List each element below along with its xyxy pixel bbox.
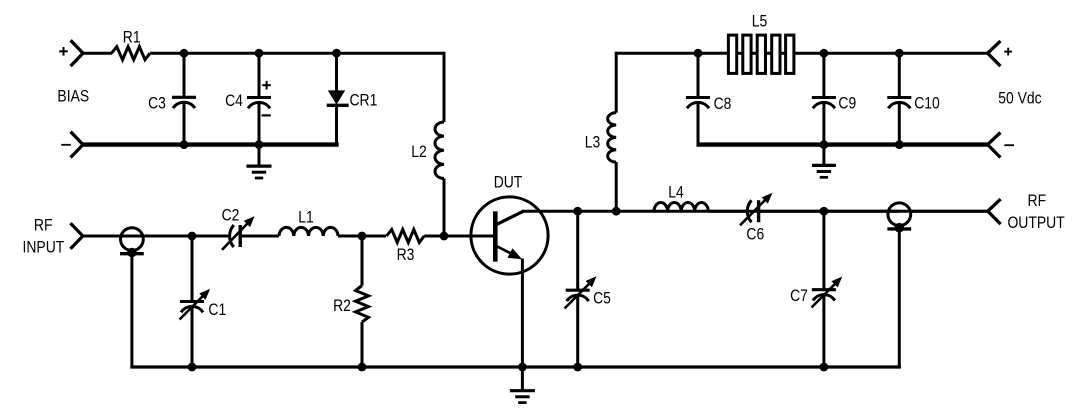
wire collector line xyxy=(522,210,988,213)
transistor DUT emitter lead xyxy=(496,246,522,259)
label C1 xyxy=(208,300,226,319)
junction bias bottom C4 xyxy=(255,140,264,149)
junction input C1 xyxy=(188,232,197,241)
junction out C5 xyxy=(573,207,582,216)
label BIAS xyxy=(57,87,89,106)
junction bottom C7 xyxy=(820,363,829,372)
junction rail C10 xyxy=(895,140,904,149)
wire C1 bottom xyxy=(191,306,194,367)
junction top C9 xyxy=(820,49,829,58)
inductor L3 xyxy=(608,113,617,163)
wire C3 bottom xyxy=(183,102,186,145)
label DUT xyxy=(494,173,523,192)
ground at C4 xyxy=(247,145,272,178)
svg-text:C4: C4 xyxy=(225,91,243,110)
transistor DUT body circle xyxy=(471,197,548,274)
wire C10 top xyxy=(898,53,901,97)
label 50 Vdc xyxy=(998,89,1042,108)
inductor L2 xyxy=(435,122,444,178)
label RF (output) xyxy=(1028,191,1047,210)
svg-text:C6: C6 xyxy=(746,224,764,243)
wire C9 bottom xyxy=(822,102,825,144)
label C3 xyxy=(148,94,166,113)
wire C5 top xyxy=(576,211,579,290)
wire R2 bottom xyxy=(361,322,364,367)
svg-text:CR1: CR1 xyxy=(349,90,377,109)
terminal BIAS - input xyxy=(61,132,83,158)
label R2 xyxy=(333,296,351,315)
capacitor C5 (variable) xyxy=(565,276,597,308)
label C8 xyxy=(714,94,732,113)
label C6 xyxy=(746,224,764,243)
svg-text:R1: R1 xyxy=(123,28,141,47)
svg-text:C7: C7 xyxy=(790,286,808,305)
wire C7 top xyxy=(822,211,825,289)
wire C7 bottom xyxy=(822,294,825,367)
label RF (input) xyxy=(34,216,53,235)
svg-text:L4: L4 xyxy=(668,183,684,202)
resistor R1 xyxy=(112,47,151,60)
label L3 xyxy=(585,133,601,152)
wire input connector stub xyxy=(130,254,133,369)
label CR1 xyxy=(349,90,377,109)
svg-text:DUT: DUT xyxy=(494,173,523,192)
wire CR1 bottom xyxy=(335,105,338,144)
wire C4 top xyxy=(258,53,261,97)
svg-text:OUTPUT: OUTPUT xyxy=(1007,213,1064,232)
capacitor C6 (series variable) xyxy=(740,193,773,226)
label C4 xyxy=(225,91,243,110)
svg-text:L3: L3 xyxy=(585,133,601,152)
label C2 xyxy=(222,206,240,225)
wire output connector stub xyxy=(898,229,901,369)
inductor L1 xyxy=(279,227,338,236)
ground at emitter xyxy=(510,367,535,403)
inductor L4 xyxy=(654,203,708,212)
svg-text:C10: C10 xyxy=(914,94,940,113)
junction top C10 xyxy=(895,49,904,58)
junction top C8 xyxy=(694,49,703,58)
label OUTPUT xyxy=(1007,213,1064,232)
wire bias + to R1 xyxy=(83,52,112,55)
label L2 xyxy=(411,142,427,161)
capacitor C4 (polarized) xyxy=(247,81,271,116)
wire RF input line xyxy=(83,235,230,238)
junction bottom C1 xyxy=(188,363,197,372)
capacitor C3 xyxy=(172,97,196,108)
wire CR1 top xyxy=(335,53,338,91)
wire bias bottom rail xyxy=(83,142,339,146)
transistor DUT collector lead xyxy=(496,211,524,225)
transistor DUT base bar xyxy=(493,211,498,261)
wire L2 bottom xyxy=(443,179,446,237)
terminal RF INPUT xyxy=(70,223,82,249)
wire to RF output terminal xyxy=(910,210,988,213)
junction out C7 xyxy=(820,207,829,216)
wire L1 to R3 xyxy=(338,235,386,238)
wire L3 bottom xyxy=(615,162,618,211)
wire 50V bottom rail xyxy=(697,142,988,146)
wire C3 top xyxy=(183,53,186,97)
label R3 xyxy=(397,245,415,264)
resistor R2 xyxy=(356,286,369,323)
connector J2 (output) xyxy=(887,203,911,233)
svg-text:BIAS: BIAS xyxy=(57,87,89,106)
svg-text:R2: R2 xyxy=(333,296,351,315)
svg-text:L5: L5 xyxy=(752,12,768,31)
capacitor C2 (series variable) xyxy=(222,216,255,250)
capacitor C8 xyxy=(686,98,710,109)
svg-text:50 Vdc: 50 Vdc xyxy=(998,89,1042,108)
ground at C9 xyxy=(812,145,836,178)
wire C4 bottom xyxy=(258,102,261,144)
diode CR1 xyxy=(327,90,349,105)
junction top C4 xyxy=(255,49,264,58)
terminal 50V - xyxy=(988,133,1014,158)
label L1 xyxy=(298,207,314,226)
wire L3 top xyxy=(615,52,618,113)
label INPUT xyxy=(23,238,65,257)
connector J1 (input) xyxy=(120,228,144,258)
svg-text:RF: RF xyxy=(1028,191,1047,210)
wire C6 to C7 junction xyxy=(760,210,899,213)
label L4 xyxy=(668,183,684,202)
junction rail C9 xyxy=(820,140,829,149)
svg-text:L2: L2 xyxy=(411,142,427,161)
terminal 50V + xyxy=(988,41,1013,66)
wire R3 to base xyxy=(424,235,495,238)
wire top right rail xyxy=(616,52,987,55)
capacitor C10 xyxy=(887,98,911,109)
junction bottom R2 xyxy=(358,363,367,372)
label C10 xyxy=(914,94,940,113)
wire L4 to C6 xyxy=(708,210,747,213)
label R1 xyxy=(123,28,141,47)
wire C10 bottom xyxy=(898,102,901,144)
terminal BIAS + input xyxy=(59,40,83,66)
wire C8 top xyxy=(697,53,700,97)
svg-text:C3: C3 xyxy=(148,94,166,113)
resistor R3 xyxy=(387,230,425,243)
label L5 xyxy=(752,12,768,31)
inductor L5 (square-wound coil) xyxy=(728,35,793,73)
svg-text:RF: RF xyxy=(34,216,53,235)
junction bottom C5 xyxy=(573,363,582,372)
terminal RF OUTPUT xyxy=(988,199,1001,224)
wire R2 top xyxy=(361,236,364,286)
capacitor C1 (variable) xyxy=(180,289,211,320)
wire R1 to L2 top corner xyxy=(150,52,444,55)
junction base R2 xyxy=(358,232,367,241)
svg-text:C1: C1 xyxy=(208,300,226,319)
junction out L3 xyxy=(612,207,621,216)
svg-text:C2: C2 xyxy=(222,206,240,225)
wire bottom ground rail xyxy=(130,365,900,368)
junction bias bottom C3 xyxy=(180,140,189,149)
capacitor C9 xyxy=(812,98,836,109)
capacitor C7 (variable) xyxy=(812,277,843,308)
wire C8 bottom xyxy=(697,102,700,144)
svg-text:L1: L1 xyxy=(298,207,314,226)
label C9 xyxy=(838,94,856,113)
wire C1 top xyxy=(191,236,194,301)
svg-text:C9: C9 xyxy=(838,94,856,113)
wire emitter down xyxy=(521,259,524,368)
label C7 xyxy=(790,286,808,305)
junction base L2 xyxy=(440,232,449,241)
svg-text:C5: C5 xyxy=(593,288,611,307)
wire L2 top xyxy=(443,52,446,122)
junction top CR1 xyxy=(332,49,341,58)
svg-text:R3: R3 xyxy=(397,245,415,264)
label C5 xyxy=(593,288,611,307)
svg-text:INPUT: INPUT xyxy=(23,238,65,257)
junction top C3 xyxy=(180,49,189,58)
svg-text:C8: C8 xyxy=(714,94,732,113)
wire C2 to L1 xyxy=(242,235,279,238)
junction emitter bottom xyxy=(518,363,527,372)
wire C5 bottom xyxy=(576,295,579,367)
wire C9 top xyxy=(822,53,825,97)
